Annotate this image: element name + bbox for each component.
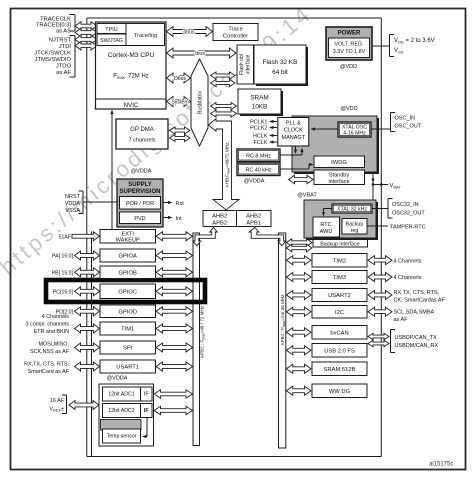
svg-text:PC[15:0]: PC[15:0] xyxy=(53,289,74,295)
svg-text:PCLK2: PCLK2 xyxy=(250,126,267,132)
svg-text:POR / PDR: POR / PDR xyxy=(126,201,154,207)
svg-text:TIM3: TIM3 xyxy=(333,275,346,281)
svg-text:RX,TX, CTS, RTS,: RX,TX, CTS, RTS, xyxy=(24,362,69,368)
block Backup interface xyxy=(313,240,368,248)
wire busmatrix-flash arrows xyxy=(211,72,236,87)
block RC 40 kHz xyxy=(237,163,280,176)
svg-text:USART1: USART1 xyxy=(116,365,139,371)
svg-text:4 Channels: 4 Channels xyxy=(394,258,422,264)
svg-text:APB1: APB1 xyxy=(246,220,261,226)
wire bxCAN usb arrows xyxy=(368,333,389,346)
block SRAM 10KB xyxy=(238,89,283,116)
svg-text:Flash 32 KB: Flash 32 KB xyxy=(263,59,298,66)
block Standby interface xyxy=(314,170,365,185)
svg-text:CK, SmartCardas AF: CK, SmartCardas AF xyxy=(394,298,446,304)
svg-text:4 Channels: 4 Channels xyxy=(42,314,70,320)
svg-text:SW/JTAG: SW/JTAG xyxy=(100,38,123,44)
svg-text:SmartCard as AF: SmartCard as AF xyxy=(28,369,70,375)
svg-text:Flash obl: Flash obl xyxy=(239,54,245,75)
wire I2C left arrow xyxy=(286,307,311,316)
wire WW DG left arrow xyxy=(286,386,311,395)
svg-text:as AF: as AF xyxy=(394,317,409,323)
wire USB 2.0 FS left arrow xyxy=(286,346,311,355)
svg-text:interface: interface xyxy=(246,54,252,74)
wire left arrow SPI xyxy=(75,343,100,352)
svg-text:FCLK: FCLK xyxy=(253,140,267,146)
block SPI xyxy=(100,341,156,354)
block GPIOD xyxy=(100,305,156,318)
watermark xyxy=(0,3,314,280)
block USART1 xyxy=(100,360,156,373)
svg-text:I2C: I2C xyxy=(335,310,344,316)
block XTAL 32 kHz xyxy=(332,204,372,213)
block AHB2 APB1 bridge xyxy=(237,211,272,227)
wire tamper xyxy=(367,225,388,227)
VREF bracket xyxy=(62,395,67,414)
svg-text:JTDO: JTDO xyxy=(56,64,72,70)
svg-text:OSC_OUT: OSC_OUT xyxy=(395,124,422,130)
svg-text:GPIOC: GPIOC xyxy=(118,289,137,295)
svg-text:OSC32_OUT: OSC32_OUT xyxy=(392,211,425,217)
wire USART2 right arrow xyxy=(368,291,392,300)
wire Int xyxy=(163,217,171,219)
wire System arrow xyxy=(167,97,191,107)
wire USART1 to APB2 bar xyxy=(156,362,193,371)
svg-text:AWU: AWU xyxy=(320,229,333,235)
pin label SPI pins xyxy=(30,342,70,356)
OSC pin bracket xyxy=(391,113,396,132)
wire GPIOA to APB2 bar xyxy=(156,251,193,260)
wire pbus arrow xyxy=(167,27,213,37)
svg-text:TIM2: TIM2 xyxy=(333,258,346,264)
svg-text:pbus: pbus xyxy=(183,30,195,36)
VDD pin bracket xyxy=(390,35,395,57)
svg-text:Controller: Controller xyxy=(223,34,248,40)
svg-text:Backup interface: Backup interface xyxy=(320,242,360,248)
block GPIOA xyxy=(100,249,156,262)
pin label USART1 pins xyxy=(24,362,70,376)
wire AHB elbow arrow xyxy=(209,119,240,210)
block EXTI WAKEUP xyxy=(100,230,156,244)
wire SPI to APB2 bar xyxy=(156,343,193,352)
svg-text:MANAGT: MANAGT xyxy=(282,135,306,141)
block Cortex-M3 CPU xyxy=(96,22,167,109)
svg-text:RTC: RTC xyxy=(320,222,331,228)
wire bridge to apb2 bar xyxy=(193,228,217,246)
wire GPIOB to APB2 bar xyxy=(156,268,193,277)
svg-text:reg: reg xyxy=(351,228,359,234)
svg-text:USBDP/CAN_TX: USBDP/CAN_TX xyxy=(395,335,438,341)
svg-text:12bit ADC1: 12bit ADC1 xyxy=(108,392,134,398)
svg-text:VSS: VSS xyxy=(394,48,404,55)
svg-text:OSC_IN: OSC_IN xyxy=(395,116,416,122)
svg-text:VBAT: VBAT xyxy=(390,183,402,190)
wire adc2 to bar xyxy=(154,406,193,414)
APB1 bus bar xyxy=(279,233,286,448)
svg-text:SUPPLY: SUPPLY xyxy=(128,182,151,188)
wire left arrow GPIOC xyxy=(75,287,100,296)
svg-text:RC 40 kHz: RC 40 kHz xyxy=(245,168,271,174)
block TIM3 xyxy=(312,271,367,284)
svg-text:as AS: as AS xyxy=(56,29,71,35)
block PLL CLOCK MANAGT xyxy=(278,118,309,147)
svg-text:64 bit: 64 bit xyxy=(272,69,288,76)
wire xtal-pll xyxy=(312,128,339,130)
wire rc40 to iwdg xyxy=(280,168,309,170)
block XTAL OSC xyxy=(338,122,371,137)
OSC32 pin bracket xyxy=(388,199,393,219)
wire vref arrow xyxy=(69,401,99,410)
block ADC container xyxy=(99,384,154,446)
block IWDG xyxy=(314,156,365,168)
svg-text:Rst: Rst xyxy=(176,201,185,207)
block RC 8 MHz xyxy=(237,149,280,162)
block GP DMA xyxy=(116,119,168,149)
svg-text:APB2: APB2 xyxy=(212,220,227,226)
wire vbat xyxy=(371,174,388,200)
svg-text:JTMS/SWDIO: JTMS/SWDIO xyxy=(35,57,72,63)
svg-text:Standby: Standby xyxy=(329,173,349,179)
svg-text:NRST: NRST xyxy=(65,194,81,200)
svg-text:bxCAN: bxCAN xyxy=(330,330,348,336)
svg-text:GPIOB: GPIOB xyxy=(119,270,137,276)
block POWER xyxy=(326,27,372,60)
trace pin labels xyxy=(36,17,72,35)
wire trace arrows to TPIU xyxy=(75,22,97,37)
svg-text:@VDD: @VDD xyxy=(340,106,357,112)
svg-text:JTDI: JTDI xyxy=(59,44,72,50)
svg-text:PLL &: PLL & xyxy=(286,121,301,127)
block Temp sensor xyxy=(103,429,141,443)
block Trace Controller xyxy=(213,24,258,41)
svg-text:Backup: Backup xyxy=(346,222,364,228)
svg-text:SUPERVISION: SUPERVISION xyxy=(120,189,161,195)
svg-text:USBDM/CAN_RX: USBDM/CAN_RX xyxy=(395,343,439,349)
wire power to VDD pin xyxy=(372,45,390,47)
svg-text:VREF±: VREF± xyxy=(49,407,64,413)
svg-text:AHB2: AHB2 xyxy=(246,213,261,219)
wire exti to nvic xyxy=(111,111,113,230)
block GPIOC xyxy=(100,284,156,299)
svg-text:ETR and BKIN: ETR and BKIN xyxy=(34,329,69,335)
svg-text:VSSA: VSSA xyxy=(65,208,80,214)
trace bracket xyxy=(70,15,76,32)
wire bxCAN left arrow xyxy=(286,328,311,337)
svg-text:ai15175c: ai15175c xyxy=(429,462,453,468)
wire Ibus arrow xyxy=(167,48,237,58)
supply bracket xyxy=(79,191,84,214)
svg-text:JTCK/SWCLK: JTCK/SWCLK xyxy=(34,51,71,57)
svg-text:as AF: as AF xyxy=(56,70,71,76)
wire GPIOC to APB2 bar xyxy=(156,287,193,296)
block GPIOB xyxy=(100,266,156,279)
svg-text:CLOCK: CLOCK xyxy=(284,128,303,134)
wire USART2 left arrow xyxy=(286,291,311,300)
wire TIM2 right arrow xyxy=(368,256,392,265)
svg-text:Dbus: Dbus xyxy=(174,76,187,82)
supply pin labels xyxy=(65,194,81,214)
svg-text:4 Channels: 4 Channels xyxy=(394,275,422,281)
svg-text:SRAM 512B: SRAM 512B xyxy=(324,367,356,373)
wire Rst xyxy=(163,202,171,204)
svg-text:IF: IF xyxy=(144,392,149,398)
wire TIM2 left arrow xyxy=(286,256,311,265)
svg-text:OSC32_IN: OSC32_IN xyxy=(392,202,419,208)
svg-text:PA[ 15:0]: PA[ 15:0] xyxy=(52,254,74,260)
wire left arrow GPIOB xyxy=(75,268,100,277)
block 12bit ADC2 xyxy=(103,404,153,418)
shared AF line xyxy=(91,232,93,457)
block Flash 32KB xyxy=(254,45,308,86)
svg-text:PB[ 15:0]: PB[ 15:0] xyxy=(52,270,74,276)
APB2 bus bar xyxy=(193,233,200,446)
svg-text:10KB: 10KB xyxy=(252,104,268,111)
block Flash interface xyxy=(237,45,254,84)
block Backup reg xyxy=(342,219,367,235)
svg-text:@VDDA: @VDDA xyxy=(131,169,152,175)
svg-text:@VDD: @VDD xyxy=(340,64,357,70)
wire I2C right arrow xyxy=(368,307,392,316)
svg-text:Int: Int xyxy=(176,216,183,222)
svg-text:IWDG: IWDG xyxy=(331,160,347,166)
svg-text:RC 8 MHz: RC 8 MHz xyxy=(246,154,271,160)
svg-text:interface: interface xyxy=(328,179,349,185)
wire dma to busmatrix xyxy=(170,127,191,142)
wire temp sensor xyxy=(146,418,148,437)
svg-text:XTAL 32 kHz: XTAL 32 kHz xyxy=(337,207,367,213)
wire standby arrow xyxy=(289,175,314,183)
wire rc8 to pll xyxy=(280,154,302,156)
GPIOC highlight rectangle xyxy=(46,280,205,302)
svg-text:Trace/trig: Trace/trig xyxy=(134,33,157,39)
svg-text:MOSI,MISO,: MOSI,MISO, xyxy=(38,342,69,348)
svg-text:51AF: 51AF xyxy=(59,234,71,240)
svg-text:3 compl. channels: 3 compl. channels xyxy=(26,322,70,328)
wire left arrow GPIOA xyxy=(75,251,100,260)
svg-text:SPI: SPI xyxy=(123,346,133,352)
wire left arrow USART1 xyxy=(75,362,100,371)
svg-text:Temp sensor: Temp sensor xyxy=(107,434,137,440)
svg-text:GPIOD: GPIOD xyxy=(118,309,137,315)
wire xtal32 to rtc xyxy=(324,208,333,210)
device container box xyxy=(87,18,382,457)
block WW DG xyxy=(312,384,367,398)
pin label TIM1 channels xyxy=(26,314,70,335)
jtag bracket xyxy=(70,36,76,78)
wire adc1 to bar xyxy=(154,390,193,398)
block Bus Matrix xyxy=(191,59,208,146)
wire SRAM 512B left arrow xyxy=(286,364,311,373)
wire supply to block xyxy=(83,201,117,203)
block clock region xyxy=(292,116,379,174)
block SUPPLY SUPERVISION xyxy=(117,179,163,227)
svg-text:Trace: Trace xyxy=(228,27,243,33)
block SRAM 512B xyxy=(312,362,367,376)
wire bridge to apb1 bar xyxy=(249,228,286,246)
jtag pin labels xyxy=(34,38,71,77)
svg-text:@VDDA: @VDDA xyxy=(107,376,128,382)
svg-text:VDDA: VDDA xyxy=(65,201,81,207)
wire jtag arrows to SWJTAG xyxy=(75,35,97,50)
svg-text:Fmax: 72M Hz: Fmax: 72M Hz xyxy=(113,74,149,81)
wire 51AF arrow xyxy=(72,232,100,241)
svg-text:IF: IF xyxy=(144,408,149,414)
block TIM2 xyxy=(312,254,367,268)
svg-text:Cortex-M3 CPU: Cortex-M3 CPU xyxy=(108,52,155,59)
svg-text:GPIOA: GPIOA xyxy=(119,254,137,260)
wire EXTI WAKEUP to APB2 bar xyxy=(156,232,193,241)
wire GPIOD to APB2 bar xyxy=(156,307,193,316)
svg-text:PVD: PVD xyxy=(134,216,145,222)
svg-text:12bit ADC2: 12bit ADC2 xyxy=(108,408,134,414)
svg-text:16 AF: 16 AF xyxy=(50,398,65,404)
svg-text:NVIC: NVIC xyxy=(124,102,139,109)
svg-text:7 channels: 7 channels xyxy=(128,138,155,144)
wire pll down stub xyxy=(295,147,297,153)
svg-text:Ibus: Ibus xyxy=(195,51,205,57)
svg-text:TAMPER-RTC: TAMPER-RTC xyxy=(390,225,426,231)
pin label VREF xyxy=(49,398,64,413)
svg-text:TIM1: TIM1 xyxy=(121,327,134,333)
wire xtal to osc pins xyxy=(371,128,391,130)
svg-text:HCLK: HCLK xyxy=(253,134,268,140)
svg-text:AHB2: AHB2 xyxy=(212,213,227,219)
svg-text:SCL,SDA,SMBA: SCL,SDA,SMBA xyxy=(394,310,435,316)
svg-text:@VBAT: @VBAT xyxy=(297,193,317,199)
block USART2 xyxy=(312,289,367,302)
svg-text:3.3V TO 1.8V: 3.3V TO 1.8V xyxy=(333,49,366,55)
block TIM1 xyxy=(100,322,156,335)
clock output labels xyxy=(250,120,268,147)
block I2C xyxy=(312,306,367,319)
svg-text:RX,TX, CTS, RTS,: RX,TX, CTS, RTS, xyxy=(394,290,440,296)
svg-text:VOLT. REG.: VOLT. REG. xyxy=(334,42,363,48)
wire left arrow TIM1 xyxy=(75,324,100,333)
wire TIM1 to APB2 bar xyxy=(156,324,193,333)
wire Dbus arrow xyxy=(167,73,191,83)
svg-text:NJTRST: NJTRST xyxy=(49,38,72,44)
block 12bit ADC1 xyxy=(103,387,153,401)
svg-text:USART2: USART2 xyxy=(328,293,351,299)
svg-text:GP DMA: GP DMA xyxy=(130,127,154,133)
USB pin bracket xyxy=(391,330,396,353)
wire backup interface arrows xyxy=(286,239,312,252)
block USB 2.0 FS xyxy=(312,344,367,358)
svg-text:POWER: POWER xyxy=(338,31,361,37)
wire left arrow GPIOD xyxy=(75,307,100,316)
svg-text:SRAM: SRAM xyxy=(250,95,268,102)
svg-text:System: System xyxy=(171,100,188,106)
block AHB2 APB2 bridge xyxy=(203,211,237,227)
block RTC AWU xyxy=(313,217,340,237)
svg-text:WAKEUP: WAKEUP xyxy=(116,238,140,244)
svg-text:4-16 MHz: 4-16 MHz xyxy=(343,131,366,137)
block backup region xyxy=(304,200,378,240)
svg-text:WW DG: WW DG xyxy=(329,389,351,395)
svg-text:USB 2.0 FS: USB 2.0 FS xyxy=(324,348,355,354)
svg-text:BusMatrix: BusMatrix xyxy=(198,91,204,114)
wire xtal32 to osc32 pins xyxy=(372,208,388,210)
block bxCAN xyxy=(312,326,367,340)
wire TIM3 left arrow xyxy=(286,273,311,282)
svg-text:@VDDA: @VDDA xyxy=(244,179,265,185)
wire TIM3 right arrow xyxy=(368,273,392,282)
svg-text:SCK,NSS as AF: SCK,NSS as AF xyxy=(30,349,70,355)
wire busmatrix-sram arrows xyxy=(211,102,237,117)
clock output arrows xyxy=(269,120,277,144)
svg-text:VDD = 2 to 3.6V: VDD = 2 to 3.6V xyxy=(394,38,435,45)
svg-text:TPIU: TPIU xyxy=(105,27,118,33)
